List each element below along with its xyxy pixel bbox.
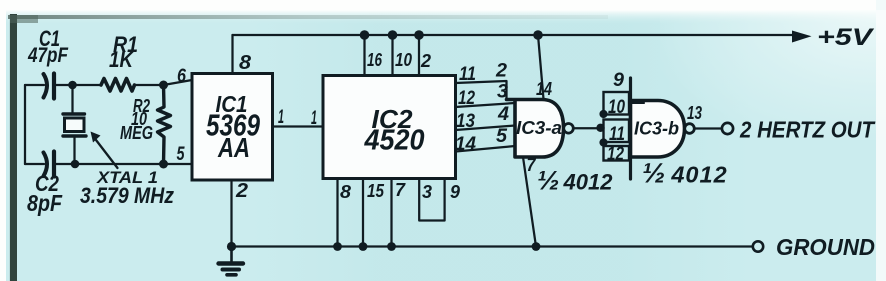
svg-text:IC3-b: IC3-b bbox=[634, 119, 679, 139]
IC2 pin 16 label bbox=[367, 50, 383, 70]
IC2 pin 1 label bbox=[311, 108, 317, 129]
node: rail dot IC2 pin2 bbox=[414, 30, 424, 40]
IC3-b pin 12 label bbox=[607, 144, 624, 165]
wire: left loop top (C1 to R1 to IC1 pin 6) bbox=[25, 80, 192, 85]
svg-text:MEG: MEG bbox=[120, 123, 153, 143]
svg-text:2: 2 bbox=[235, 180, 248, 202]
+5V label bbox=[817, 24, 875, 51]
IC3-b input ladder cell pin 11 bbox=[604, 120, 630, 143]
svg-text:9: 9 bbox=[613, 70, 624, 91]
svg-text:2: 2 bbox=[495, 61, 507, 82]
svg-text:5: 5 bbox=[496, 126, 507, 147]
svg-text:4520: 4520 bbox=[364, 125, 425, 157]
output terminal circle bbox=[722, 123, 733, 134]
IC2 text bbox=[364, 104, 425, 157]
IC3-b pin 9 label bbox=[613, 70, 624, 91]
svg-text:3.579 MHz: 3.579 MHz bbox=[80, 183, 174, 208]
svg-text:IC3-a: IC3-a bbox=[516, 118, 562, 138]
wire: IC2 pin 8 to ground bbox=[336, 179, 338, 247]
svg-text:6: 6 bbox=[177, 66, 186, 87]
nand gate IC3-a bubble bbox=[564, 124, 574, 134]
svg-text:12: 12 bbox=[607, 144, 624, 165]
svg-text:½4012: ½4012 bbox=[537, 166, 613, 196]
wire: IC2 pin 15 to ground bbox=[362, 179, 364, 247]
IC3-a pin 4 label bbox=[497, 104, 509, 125]
svg-text:1: 1 bbox=[278, 107, 284, 128]
node: ground bus dot IC1 pin2 bbox=[227, 242, 236, 251]
crystal XTAL1 bbox=[63, 114, 86, 136]
wire: IC3-a output to IC3-b inputs bbox=[573, 127, 604, 129]
nand gate IC3-b flat edge with pin 9 stub bbox=[629, 78, 632, 179]
svg-text:11: 11 bbox=[609, 124, 625, 145]
svg-text:8: 8 bbox=[340, 182, 351, 202]
ground symbol bbox=[219, 247, 244, 275]
resistor R2 bbox=[158, 85, 171, 164]
output label 2 HERTZ OUT bbox=[739, 117, 876, 143]
svg-text:½4012: ½4012 bbox=[642, 158, 728, 189]
node: ladder dot top bbox=[599, 110, 607, 118]
wire: IC1 pin 2 to ground bbox=[230, 180, 232, 247]
node: junction dot crystal bottom bbox=[71, 160, 80, 169]
IC2 pin 15 label bbox=[367, 181, 385, 201]
IC3-a text bbox=[516, 118, 562, 138]
wire: IC2 pin 14 to IC3-a pin 5 bbox=[456, 146, 516, 152]
+5V arrowhead bbox=[792, 31, 812, 43]
node: junction dot R1/R2 top bbox=[159, 81, 168, 90]
IC2 pin 2 label bbox=[420, 51, 431, 71]
svg-text:7: 7 bbox=[395, 180, 406, 200]
nand gate IC3-a bbox=[507, 100, 564, 158]
svg-text:10: 10 bbox=[395, 50, 412, 70]
IC3-a 1/2 4012 label bbox=[537, 166, 613, 196]
crystal XTAL1 arrow bbox=[91, 132, 118, 169]
node: junction dot R2 bottom bbox=[159, 160, 168, 169]
svg-text:13: 13 bbox=[687, 103, 702, 123]
svg-text:1: 1 bbox=[311, 108, 317, 129]
svg-text:7: 7 bbox=[527, 155, 537, 175]
IC1 pin 1 label bbox=[278, 107, 284, 128]
resistor R1 label bbox=[109, 32, 138, 72]
nand gate IC3-b bubble bbox=[685, 124, 695, 134]
node: rail dot IC2 pin10 bbox=[388, 30, 398, 40]
svg-text:15: 15 bbox=[367, 181, 385, 201]
svg-text:2 HERTZ OUT: 2 HERTZ OUT bbox=[739, 117, 876, 143]
IC3-b input ladder cell pin 12 bbox=[604, 146, 630, 161]
wire: IC2 pin 12 to IC3-a pin 3 bbox=[456, 103, 516, 107]
svg-text:AA: AA bbox=[217, 132, 250, 163]
IC3-b pin 10 label bbox=[608, 97, 625, 118]
svg-text:10: 10 bbox=[608, 97, 625, 118]
IC3-a pin 7 label bbox=[527, 155, 537, 175]
svg-text:3: 3 bbox=[422, 182, 432, 202]
svg-text:12: 12 bbox=[458, 88, 475, 109]
IC3-b input ladder cell pin 10 bbox=[604, 92, 630, 115]
node: ground bus dot IC2 pin8 bbox=[333, 242, 342, 251]
scan frame top line bbox=[8, 15, 608, 19]
IC3-b pin 11 label bbox=[609, 124, 625, 145]
svg-text:GROUND: GROUND bbox=[776, 234, 875, 260]
wire: IC2 pin 13 to IC3-a pin 4 bbox=[456, 126, 516, 131]
IC2 pin 3 label bbox=[422, 182, 432, 202]
wire: crystal branch top bbox=[71, 85, 73, 114]
op-amp: IC1 box bbox=[192, 74, 273, 181]
IC1 pin 5 label bbox=[177, 144, 185, 165]
node: ladder dot bottom bbox=[599, 138, 607, 146]
IC3-a pin 2 label bbox=[495, 61, 507, 82]
IC2 pin 10 label bbox=[395, 50, 412, 70]
svg-text:+5V: +5V bbox=[817, 24, 875, 51]
svg-text:9: 9 bbox=[450, 182, 460, 202]
wire: IC3-a pin 7 to ground bbox=[523, 157, 536, 247]
IC2 pin 9 label bbox=[450, 182, 460, 202]
svg-text:1K: 1K bbox=[109, 47, 135, 72]
capacitor C2 bbox=[44, 152, 55, 177]
wire: +5V top rail bbox=[233, 34, 797, 36]
wire: rail to IC2 pin 10 bbox=[391, 35, 393, 76]
IC1 text bbox=[206, 91, 261, 163]
wire: ground bus bbox=[232, 245, 753, 247]
IC2 pin 14 label bbox=[455, 134, 476, 155]
wire: IC2 pin 7 to ground bbox=[390, 179, 392, 247]
node: ground bus dot IC2 pin15 bbox=[359, 242, 368, 251]
IC2 pin 7 label bbox=[395, 180, 406, 200]
svg-text:47pF: 47pF bbox=[27, 44, 69, 67]
capacitor C1 bbox=[44, 74, 55, 99]
crystal XTAL1 label bbox=[80, 168, 174, 208]
wire: left loop vertical bbox=[24, 85, 26, 164]
wire: crystal branch bottom bbox=[73, 136, 75, 164]
wire: IC1 pin 1 to IC2 pin 1 bbox=[273, 125, 324, 127]
ground label bbox=[776, 234, 875, 260]
svg-text:11: 11 bbox=[459, 64, 476, 85]
svg-text:16: 16 bbox=[367, 50, 383, 70]
node: ground bus dot IC2 pin7 bbox=[387, 242, 396, 251]
svg-text:4: 4 bbox=[497, 104, 509, 125]
wire: IC2 pin 3 to pin 9 strap bbox=[419, 179, 444, 221]
resistor R2 label bbox=[120, 96, 153, 143]
wire: IC2 pin 11 to IC3-a pin 2 bbox=[456, 81, 507, 100]
IC3-a pin 3 label bbox=[497, 82, 508, 103]
node: ladder dot middle bbox=[596, 124, 604, 132]
svg-text:2: 2 bbox=[420, 51, 431, 71]
svg-text:14: 14 bbox=[455, 134, 476, 155]
svg-text:8pF: 8pF bbox=[27, 190, 63, 216]
wire: rail to IC2 pin 16 bbox=[363, 35, 365, 76]
IC2 box bbox=[323, 76, 456, 179]
scan frame left bar bbox=[10, 14, 39, 281]
IC1 pin 6 label bbox=[177, 66, 186, 87]
wire: IC3-b output to terminal bbox=[694, 127, 721, 129]
IC3-b 1/2 4012 label bbox=[642, 158, 728, 189]
IC1 pin 2 label bbox=[235, 180, 248, 202]
wire: rail to IC2 pin 2 bbox=[418, 35, 420, 76]
IC2 pin 12 label bbox=[458, 88, 475, 109]
IC3-a pin 5 label bbox=[496, 126, 507, 147]
ground terminal circle bbox=[753, 241, 763, 251]
wire: rail to IC3-a pin 14 bbox=[538, 35, 544, 99]
svg-text:8: 8 bbox=[239, 52, 252, 74]
IC2 pin 13 label bbox=[456, 111, 475, 132]
wire: IC3-b pin 10 inner stub bbox=[629, 102, 644, 104]
capacitor C2 label bbox=[27, 171, 63, 216]
node: ground bus dot IC3-a pin7 bbox=[532, 242, 541, 251]
svg-text:14: 14 bbox=[536, 79, 552, 99]
svg-text:13: 13 bbox=[456, 111, 475, 132]
nand gate IC3-b body bbox=[631, 101, 685, 158]
capacitor C1 label bbox=[27, 26, 69, 67]
node: junction dot C1/crystal bbox=[68, 81, 77, 90]
IC3-a pin 14 label bbox=[536, 79, 552, 99]
wire: rail to IC1 pin 8 bbox=[231, 35, 233, 74]
resistor R1 bbox=[101, 79, 135, 92]
wire: left loop bottom (C2 to IC1 pin 5) bbox=[25, 163, 192, 165]
IC1 pin 8 label bbox=[239, 52, 252, 74]
node: rail dot IC3-a pin14 bbox=[533, 30, 543, 40]
svg-text:5: 5 bbox=[177, 144, 185, 165]
node: rail dot IC2 pin16 bbox=[360, 30, 370, 40]
IC3-b text bbox=[634, 119, 679, 139]
IC3-b pin 13 label bbox=[687, 103, 702, 123]
IC2 pin 11 label bbox=[459, 64, 476, 85]
IC2 pin 8 label bbox=[340, 182, 351, 202]
